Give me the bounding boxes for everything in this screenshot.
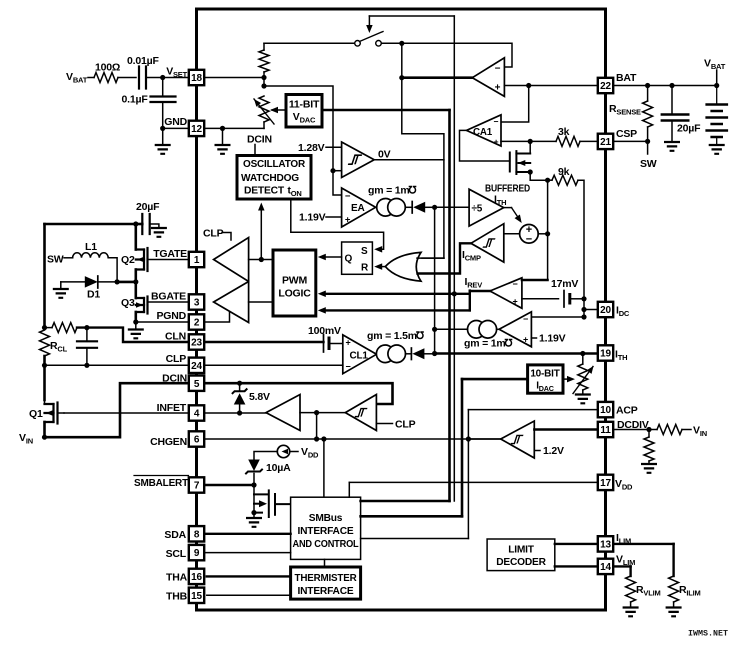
label BAT pin label: [616, 72, 637, 84]
label 3k value: [558, 126, 570, 138]
junction IDC bottom: [581, 314, 586, 319]
wire 3k to pin 21: [580, 140, 597, 142]
current source IDC ring 2: [479, 321, 497, 339]
label BUFFERED: [485, 184, 530, 195]
svg-text:11-BIT: 11-BIT: [289, 99, 320, 111]
wire IDC to gm amp minus: [531, 316, 584, 318]
wire filter cap bottom: [86, 348, 88, 366]
label DCIN internal label: [247, 134, 272, 146]
svg-text:DCIN: DCIN: [247, 134, 272, 146]
svg-text:22: 22: [600, 81, 611, 92]
svg-text:SMBus: SMBus: [309, 513, 343, 524]
wire ICMP output to OR lower input: [418, 243, 471, 273]
wire RVLIM to ground: [630, 602, 632, 608]
label TGATE pin label: [153, 248, 187, 260]
block 10-BIT IDAC: [528, 365, 563, 393]
arrowhead diode EA: [413, 202, 425, 213]
variable resistor arrow on IDAC resistor: [573, 367, 593, 394]
label 20uF input cap value: [136, 201, 160, 213]
resistor RVLIM: [626, 576, 636, 602]
wire to pin 20: [584, 309, 597, 311]
diode EA output: [411, 202, 413, 214]
junction watchdog tap: [259, 257, 264, 262]
wire RCL to CLP tap: [43, 356, 46, 365]
label VDD source label: [301, 446, 319, 460]
junction BAT node: [526, 83, 531, 88]
label divide by 5 label: [472, 204, 483, 215]
svg-text:THB: THB: [166, 591, 188, 603]
label INFET pin label: [157, 402, 187, 414]
junction zener bottom: [237, 410, 242, 415]
svg-text:WATCHDOG: WATCHDOG: [241, 173, 299, 184]
op-amp CA1: [467, 115, 502, 146]
IC boundary box: [197, 9, 606, 610]
buffer INFET driver: [266, 395, 300, 431]
svg-text:0.01µF: 0.01µF: [127, 55, 159, 67]
label RCL label: [50, 340, 68, 354]
svg-text:−: −: [494, 117, 499, 127]
buffer divide by 5: [469, 189, 504, 226]
pin 7 SMBALERT: [189, 477, 204, 492]
svg-text:INTERFACE: INTERFACE: [298, 586, 354, 597]
ground Q3 source: [128, 330, 144, 339]
current source CL1 ring 2: [388, 345, 406, 363]
junction SW node: [133, 279, 138, 284]
hysteresis mark DCDIV comparator: [511, 435, 524, 443]
junction SMBALERT node: [251, 482, 256, 487]
wire summer to ICMP: [504, 233, 520, 235]
svg-text:BUFFERED: BUFFERED: [485, 184, 530, 195]
svg-text:+: +: [512, 297, 517, 307]
wire into OR gate upper input: [422, 257, 444, 259]
summer ITH clamp: [520, 225, 539, 244]
wire divider top: [263, 43, 265, 50]
current source EA output ring 1: [377, 199, 395, 217]
svg-text:SW: SW: [640, 158, 657, 170]
label SMBALERT pin: [134, 476, 189, 490]
wire 100ohm to 0.01uF: [118, 77, 136, 79]
pin 14 VLIM: [598, 559, 613, 574]
wire GND node to pin 12: [163, 127, 189, 129]
wire IREV minus to 9k node: [522, 279, 548, 281]
wire SCL to SMBus: [206, 552, 291, 554]
wire CLN filter: [45, 327, 53, 329]
wire 9k to IDC node: [578, 180, 584, 299]
label RILIM label: [679, 584, 701, 598]
wire CLN to pin 23: [77, 328, 189, 342]
label THA pin label: [166, 572, 188, 584]
hysteresis mark DCIN comparator: [355, 409, 368, 417]
label GND pin label: [164, 116, 187, 128]
label L1 label: [85, 241, 97, 253]
label DCIN pin label: [162, 373, 187, 385]
wire node to Q2 source: [117, 281, 136, 284]
svg-text:SDA: SDA: [164, 529, 186, 541]
wire CA1 plus input: [501, 140, 530, 142]
junction IDAC resistor tap: [580, 351, 585, 356]
svg-text:1.19V: 1.19V: [539, 333, 566, 345]
wire clamp to SMBALERT: [253, 474, 255, 486]
wire VDD into SMBus block: [348, 482, 350, 497]
wire pin18 to divider: [204, 77, 264, 79]
label 10uA label: [266, 462, 291, 474]
arrowhead SMBALERT FET body: [259, 500, 267, 507]
wire Q2 drain: [135, 224, 138, 250]
wire SMBus to IDAC bus: [361, 515, 462, 518]
wire SMBALERT FET body stub: [254, 503, 259, 505]
wire to Q3 drain: [135, 282, 138, 298]
svg-text:CLP: CLP: [395, 419, 416, 431]
wire pin 12 to divider bottom: [204, 127, 264, 129]
wire CL1 diode to ITH bus: [425, 353, 435, 355]
wire Q1 gate stub: [58, 412, 65, 414]
label 0.01uF value: [127, 55, 159, 67]
comparator ICMP: [471, 224, 504, 262]
wire switch node to buffer output: [401, 43, 403, 77]
wire PGND line: [136, 321, 189, 323]
junction CLP tap: [42, 363, 47, 368]
wire SMBus to ACP bus: [361, 538, 469, 540]
node divider feedback tap: [261, 83, 266, 88]
svg-text:0V: 0V: [378, 149, 391, 161]
wire summer to 9k node: [538, 233, 547, 235]
wire div5 output: [504, 207, 512, 209]
wire 0.1uF to GND line: [162, 102, 164, 128]
svg-text:CHGEN: CHGEN: [150, 436, 187, 448]
svg-text:15: 15: [191, 591, 202, 602]
svg-text:10-BIT: 10-BIT: [530, 369, 559, 380]
pin 13 ILIM: [598, 536, 613, 551]
label D1 label: [87, 289, 100, 301]
wire FET source to 9k node: [530, 172, 547, 180]
junction RSENSE top: [645, 83, 650, 88]
wire gm IDC output to ITH bus: [435, 328, 468, 330]
label Q2 label: [121, 254, 135, 266]
wire pin 21 to RSENSE: [614, 140, 647, 142]
label VLIM pin label: [616, 554, 635, 568]
wire switch to buffer inverting feedback: [382, 43, 513, 67]
comparator DCIN detect: [345, 395, 376, 431]
label 0.1uF value: [122, 94, 149, 106]
svg-text:BGATE: BGATE: [151, 291, 186, 303]
junction 9k node: [545, 178, 550, 183]
wire Q2 source to SW node: [135, 270, 138, 282]
label latch Q: [345, 254, 353, 265]
wire rings to amp: [497, 328, 500, 330]
wire Q1 top: [44, 400, 46, 404]
inductor L1: [73, 253, 109, 258]
label SW label right: [640, 158, 657, 170]
label gm 1mho label IDC: [464, 338, 506, 350]
junction ITH bus IDC: [432, 327, 437, 332]
wire 9k node down to IREV: [547, 180, 549, 280]
capacitor 100mV offset: [323, 335, 325, 353]
node VSET junction: [160, 75, 165, 80]
wire INFET driver input: [300, 412, 317, 414]
label 1.2V reference: [543, 445, 564, 457]
junction feedback to 0V comparator: [330, 168, 335, 173]
wire rings to diode: [405, 206, 412, 208]
svg-text:DECODER: DECODER: [496, 557, 546, 568]
current source IDC ring 1: [468, 321, 486, 339]
svg-text:9: 9: [194, 548, 200, 559]
wire ITH line to pin 19: [435, 352, 597, 354]
wire TGATE driver input: [249, 259, 273, 261]
label VBAT supply label: [704, 58, 726, 72]
wire VDD line to pin 17: [349, 481, 597, 483]
svg-text:CLP: CLP: [166, 353, 187, 365]
svg-text:THA: THA: [166, 572, 188, 584]
label 17mV value: [551, 278, 578, 290]
arrowhead into watchdog: [258, 203, 265, 211]
svg-text:10µA: 10µA: [266, 462, 291, 474]
svg-text:7: 7: [194, 481, 200, 492]
wire 10uA to VDD: [290, 451, 298, 453]
junction ITH node: [432, 351, 437, 356]
arrowhead Q3 body: [136, 302, 143, 308]
label VDD pin label: [615, 478, 633, 492]
OR gate: [385, 252, 421, 281]
comparator DCDIV 1.2V: [501, 421, 535, 458]
comparator IREV: [490, 278, 522, 309]
label latch S: [361, 246, 368, 257]
ground D1: [53, 289, 69, 298]
svg-text:100Ω: 100Ω: [95, 62, 120, 74]
wire 1.19V to EA: [326, 216, 342, 218]
op-amp BAT buffer: [472, 58, 504, 97]
wire IREV output jog: [469, 291, 471, 311]
svg-text:SW: SW: [47, 254, 64, 266]
label gm 1mho label EA: [368, 185, 410, 197]
junction switch node: [399, 41, 404, 46]
svg-text:IWMS.NET: IWMS.NET: [688, 630, 728, 639]
label BGATE pin label: [151, 291, 186, 303]
transistor Q3 bottom FET: [136, 297, 148, 314]
svg-text:D1: D1: [87, 289, 100, 301]
arrowhead of VDAC variable resistor: [252, 97, 261, 107]
arrowhead into R input: [374, 263, 382, 270]
hysteresis mark 0V comparator: [348, 155, 362, 164]
wire DCIN internal: [204, 383, 392, 404]
svg-text:17mV: 17mV: [551, 278, 578, 290]
resistor 3k: [556, 136, 580, 146]
junction IDC pin tap: [581, 307, 586, 312]
svg-text:CL1: CL1: [350, 351, 369, 362]
pin 23 CLN: [189, 334, 204, 349]
arrowhead VDAC control: [270, 107, 278, 114]
label 9k value: [558, 166, 570, 178]
svg-text:1: 1: [194, 255, 200, 266]
junction 20uF top: [669, 83, 674, 88]
junction buffer output node: [399, 75, 404, 80]
label ILIM pin label: [616, 532, 631, 546]
wire switch control horizontal: [369, 15, 454, 17]
svg-text:+: +: [494, 137, 499, 147]
wire to ground: [162, 128, 164, 145]
label CHGEN pin label: [150, 436, 187, 448]
wire DCDIV to pin 11: [534, 428, 597, 430]
svg-text:+: +: [345, 215, 351, 226]
junction input cap node: [133, 221, 138, 226]
svg-text:+: +: [523, 335, 528, 345]
wire control bus vertical: [453, 16, 455, 501]
label CSP pin label: [616, 128, 637, 140]
svg-text:CLP: CLP: [203, 228, 224, 240]
label VIN label left: [19, 432, 33, 446]
wire comparator CLP input stub: [376, 423, 392, 425]
arrowhead into PWM upper: [318, 291, 326, 298]
svg-text:℧: ℧: [409, 185, 418, 197]
pin 15 THB: [189, 588, 204, 603]
svg-text:CLN: CLN: [165, 331, 186, 343]
label Q3 label: [121, 297, 135, 309]
svg-text:÷5: ÷5: [472, 204, 483, 215]
wire decoder to pin 13: [555, 543, 597, 545]
svg-text:−: −: [345, 362, 350, 372]
svg-text:5: 5: [194, 379, 200, 390]
svg-text:℧: ℧: [505, 338, 514, 350]
wire SMBALERT to pin 7: [206, 484, 254, 486]
wire ILIM external: [614, 543, 673, 545]
label RSENSE label: [609, 103, 641, 117]
pin 9 SCL: [189, 545, 204, 560]
wire Q3 to ground: [135, 322, 137, 329]
svg-text:GND: GND: [164, 116, 187, 128]
wire zener to INFET line: [239, 405, 241, 414]
resistor VDAC variable: [259, 96, 269, 122]
wire SMBus to VDAC bus: [361, 500, 450, 503]
pin 12 GND: [189, 121, 204, 136]
label ACP pin label: [616, 405, 638, 417]
wire CHGEN to SMBus block: [323, 439, 325, 497]
pin 24 CLP: [189, 358, 204, 373]
wire to VIN: [682, 429, 691, 431]
svg-text:9k: 9k: [558, 166, 570, 178]
svg-text:13: 13: [600, 540, 611, 551]
pin 6 CHGEN: [189, 431, 204, 446]
label CA1 label: [473, 127, 493, 138]
svg-text:21: 21: [600, 137, 611, 148]
wire SMBus to thermistor block: [324, 559, 326, 567]
wire 17mV to IDC node: [570, 298, 584, 300]
svg-text:L1: L1: [85, 241, 97, 253]
svg-text:PGND: PGND: [156, 310, 186, 322]
ground IDAC: [575, 395, 591, 404]
junction CHGEN INFET: [314, 436, 319, 441]
svg-text:1.28V: 1.28V: [298, 142, 325, 154]
wire VDAC bus: [322, 109, 450, 112]
ground below 0.1uF: [155, 145, 171, 154]
wire IREV path to PWM lower: [322, 309, 470, 311]
wire ACP CHGEN vertical: [467, 410, 469, 539]
label 100ohm value: [95, 62, 120, 74]
wire switch control drop: [368, 16, 370, 26]
wire VBAT to 100ohm: [88, 77, 94, 79]
ground DCDIV: [641, 464, 657, 473]
wire VDAC bus vertical: [448, 110, 451, 501]
label gm 1.5mho label: [367, 330, 417, 342]
wire comparator output to node: [317, 412, 346, 414]
block SR latch: [342, 242, 373, 274]
svg-text:INFET: INFET: [157, 402, 187, 414]
svg-text:−: −: [345, 191, 351, 202]
wire PGND to driver rail: [204, 313, 229, 323]
junction CHGEN ACP: [466, 436, 471, 441]
wire feedback to EA inverting input: [264, 86, 342, 195]
junction CLN tap: [42, 325, 47, 330]
junction CSP sense node: [528, 139, 533, 144]
label 0V label: [378, 149, 391, 161]
svg-text:gm = 1.5m: gm = 1.5m: [367, 330, 417, 342]
block OSCILLATOR WATCHDOG DETECT: [237, 156, 311, 200]
hysteresis mark ICMP: [483, 239, 496, 247]
label 1.19V reference EA: [299, 212, 326, 224]
arrowhead IDAC control: [567, 376, 575, 383]
wire CLP to TGATE driver top: [222, 233, 231, 241]
resistor RILIM: [669, 576, 679, 602]
junction Q3 source PGND: [133, 319, 138, 324]
label 1.28V reference: [298, 142, 325, 154]
ground RVLIM: [623, 608, 639, 617]
label CLP driver label: [203, 228, 224, 240]
switch contacts: [355, 41, 361, 47]
wire BGATE to Q3 gate: [148, 301, 189, 303]
resistor 9k: [552, 175, 578, 185]
pin 17 VDD: [598, 475, 613, 490]
transistor Q2 top FET: [136, 248, 148, 271]
arrowhead into PWM from latch: [318, 254, 326, 261]
wire VSET to 0.1uF top: [162, 78, 164, 97]
wire D1 cathode to node: [98, 281, 117, 283]
wire to SW stub: [647, 141, 649, 154]
svg-text:LIMIT: LIMIT: [508, 545, 535, 556]
wire decoder to pin 14: [555, 565, 597, 567]
svg-text:ACP: ACP: [616, 405, 638, 417]
wire D1 anode: [61, 281, 85, 283]
svg-text:℧: ℧: [416, 330, 425, 342]
pin 4 INFET: [189, 405, 204, 420]
wire buffer output: [402, 76, 473, 79]
svg-text:12: 12: [191, 124, 202, 135]
arrowhead div5 to summer: [515, 215, 525, 225]
label CL1 label: [350, 351, 369, 362]
wire D1 to ground: [60, 282, 62, 289]
label DCDIV pin label: [617, 419, 649, 431]
pin 10 ACP: [598, 402, 613, 417]
capacitor CLN filter: [77, 341, 97, 348]
wire input rail top: [45, 223, 136, 226]
wire TGATE to Q2 gate: [148, 259, 189, 261]
wire IREV plus to 17mV: [522, 298, 559, 300]
wire divider bottom: [263, 122, 265, 128]
wire to 0V comparator plus input: [333, 170, 342, 172]
svg-text:3k: 3k: [558, 126, 570, 138]
node GND junction: [160, 126, 165, 131]
wire divider to switch: [264, 42, 356, 44]
wire 1.2V stub: [534, 450, 540, 452]
wire ACP line: [468, 409, 596, 411]
wire VSET node to pin 18: [146, 77, 189, 79]
arrowhead Q1 body: [46, 410, 53, 416]
current source CL1 ring 1: [376, 345, 394, 363]
battery VBAT: [707, 86, 727, 146]
arrowhead IDAC variable resistor: [587, 364, 596, 374]
label SW node label: [47, 254, 64, 266]
wire divider mid: [263, 72, 265, 86]
junction cap to CLP line: [84, 363, 89, 368]
arrowhead Q2 body: [137, 257, 144, 263]
svg-text:5.8V: 5.8V: [249, 391, 270, 403]
